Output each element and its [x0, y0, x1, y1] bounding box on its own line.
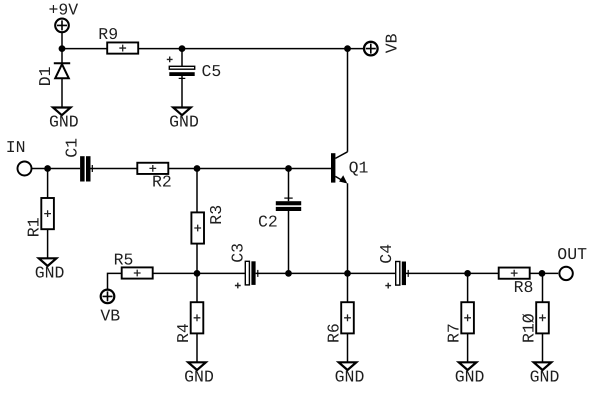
- svg-text:IN: IN: [6, 138, 26, 157]
- svg-text:R1: R1: [24, 217, 43, 237]
- svg-text:D1: D1: [36, 66, 55, 86]
- svg-text:OUT: OUT: [557, 245, 587, 264]
- svg-text:+9V: +9V: [49, 1, 79, 20]
- svg-text:R5: R5: [114, 250, 134, 269]
- svg-text:VB: VB: [100, 307, 120, 326]
- svg-text:GND: GND: [184, 367, 214, 386]
- svg-text:R1Ø: R1Ø: [519, 313, 538, 343]
- svg-text:R3: R3: [207, 205, 226, 225]
- svg-text:C1: C1: [62, 138, 81, 158]
- svg-text:R4: R4: [174, 323, 193, 343]
- svg-text:R8: R8: [514, 278, 534, 297]
- svg-text:C4: C4: [377, 244, 396, 264]
- svg-text:GND: GND: [455, 367, 485, 386]
- svg-text:GND: GND: [335, 367, 365, 386]
- svg-text:C5: C5: [202, 62, 222, 81]
- svg-text:VB: VB: [383, 33, 402, 53]
- svg-text:R9: R9: [98, 25, 118, 44]
- svg-text:R7: R7: [445, 323, 464, 343]
- svg-text:C3: C3: [229, 243, 248, 263]
- svg-text:GND: GND: [49, 113, 79, 132]
- svg-text:C2: C2: [258, 213, 278, 232]
- svg-text:GND: GND: [35, 263, 65, 282]
- svg-text:GND: GND: [530, 367, 560, 386]
- svg-text:Q1: Q1: [349, 158, 369, 177]
- svg-text:R2: R2: [152, 173, 172, 192]
- svg-text:R6: R6: [324, 323, 343, 343]
- svg-text:GND: GND: [169, 113, 199, 132]
